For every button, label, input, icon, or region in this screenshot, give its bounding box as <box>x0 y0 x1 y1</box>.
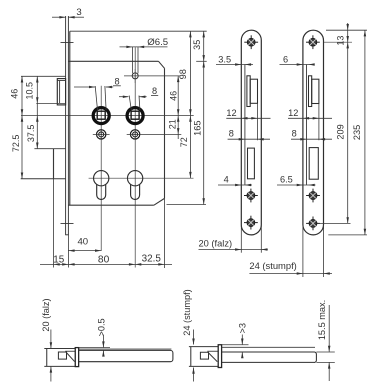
section stumpf case <box>189 347 218 367</box>
dim 8 plate1 <box>228 129 270 141</box>
dim 21 right <box>167 116 179 135</box>
faceplate screw mark bottom <box>61 223 74 225</box>
dim 6 <box>280 55 315 66</box>
plate1 latch cutout <box>250 79 257 103</box>
svg-text:46: 46 <box>168 91 178 101</box>
plate1 screw bottom <box>244 216 258 230</box>
svg-text:3.5: 3.5 <box>218 55 231 65</box>
svg-text:13: 13 <box>336 36 346 46</box>
plate2 screw top <box>306 35 320 49</box>
strike plate 2 outline <box>303 30 324 235</box>
text 15 <box>53 254 64 265</box>
svg-text:235: 235 <box>352 125 362 140</box>
plate1 screw top <box>244 35 258 49</box>
svg-text:8: 8 <box>292 129 297 139</box>
plate2 screw bottom <box>306 217 320 231</box>
dim 209 <box>336 42 349 223</box>
plates bottom witness <box>328 234 367 236</box>
dim 6.5 <box>277 175 316 187</box>
plate2 cutout witness <box>318 104 320 141</box>
deadbolt front witness <box>53 179 55 268</box>
dim 72 right <box>179 116 192 179</box>
text 32.5 <box>142 254 162 265</box>
plate2 screw mid <box>306 189 320 203</box>
latch bolt <box>57 79 65 105</box>
svg-text:6: 6 <box>283 55 288 65</box>
section falz latch bevel <box>65 351 75 361</box>
dim 40 <box>68 237 101 252</box>
follower 1 <box>93 130 110 139</box>
dim 13 <box>336 23 349 223</box>
text 80 <box>98 255 110 266</box>
cylinder hole 2 <box>127 171 142 200</box>
svg-text:Ø6.5: Ø6.5 <box>147 37 168 48</box>
plate2 latch lip <box>309 76 312 107</box>
faceplate back witness <box>67 235 69 268</box>
plates top witness <box>326 29 367 31</box>
spindle hub 2 <box>127 108 143 124</box>
plate2 screw3 centerline ext <box>320 222 351 224</box>
hub column centerline 2 <box>134 47 136 267</box>
dim 235 <box>352 30 366 235</box>
dim 98 right <box>178 31 192 178</box>
dim 24 stumpf <box>249 226 332 278</box>
svg-text:24 (stumpf): 24 (stumpf) <box>182 289 192 335</box>
plate1 bend line <box>244 65 246 185</box>
svg-text:165: 165 <box>193 121 203 136</box>
dim 8 plate2 <box>291 129 332 141</box>
svg-text:72: 72 <box>179 137 189 147</box>
svg-text:37.5: 37.5 <box>26 125 36 143</box>
section stumpf door bar <box>222 347 317 362</box>
section falz case <box>44 349 75 367</box>
dim 3 (faceplate thickness) <box>52 7 84 19</box>
deadbolt <box>21 149 66 179</box>
section falz latch <box>58 352 66 359</box>
svg-text:20 (falz): 20 (falz) <box>199 239 233 249</box>
dim >3 <box>222 323 249 358</box>
dim 15.5 max <box>316 300 334 381</box>
plate1 cutout witness <box>257 103 259 140</box>
section falz faceplate <box>75 348 78 367</box>
svg-text:32.5: 32.5 <box>142 254 162 265</box>
svg-text:>3: >3 <box>238 323 248 333</box>
svg-text:3: 3 <box>76 7 81 18</box>
dim >0.5 <box>79 318 110 356</box>
dim 12 plate1 <box>226 108 270 120</box>
spindle hub 1 <box>93 108 109 124</box>
plate2 latch cutout <box>312 79 319 103</box>
cylinder centerline <box>89 177 194 179</box>
svg-text:21: 21 <box>167 119 177 129</box>
plate2 deadbolt cutout <box>309 148 318 180</box>
dim 24 stumpf section <box>182 289 195 381</box>
svg-text:72.5: 72.5 <box>11 135 21 153</box>
plate2 screw1 centerline ext <box>324 41 352 43</box>
dim 8 hub1 <box>74 76 121 110</box>
dim 46 left <box>10 76 24 178</box>
case bottom extension segment <box>167 204 207 206</box>
section stumpf latch bevel <box>207 351 218 361</box>
hub centerline <box>21 115 194 117</box>
dim 3.5 <box>216 55 253 66</box>
svg-text:>0.5: >0.5 <box>97 318 107 336</box>
svg-text:35: 35 <box>192 40 202 50</box>
plate1 deadbolt cutout <box>248 148 255 179</box>
dim 20 falz <box>199 226 268 253</box>
dim 4 plate1 <box>218 175 252 187</box>
strike plate 1 outline <box>241 30 261 235</box>
svg-text:12: 12 <box>226 108 236 118</box>
svg-text:80: 80 <box>98 255 110 266</box>
svg-text:8: 8 <box>152 86 157 96</box>
dim 12 plate2 <box>288 108 332 120</box>
dim 20 falz section <box>41 298 52 381</box>
plate1 screw mid <box>244 189 258 203</box>
dim 8 hub2 <box>119 86 158 110</box>
svg-text:8: 8 <box>229 129 234 139</box>
svg-text:24 (stumpf): 24 (stumpf) <box>249 260 296 271</box>
cylinder hole 1 <box>94 171 109 200</box>
case top extension segment <box>196 60 207 62</box>
case right witness <box>164 198 166 268</box>
svg-text:46: 46 <box>10 89 20 99</box>
svg-text:4: 4 <box>224 175 229 185</box>
svg-text:15: 15 <box>53 254 64 265</box>
svg-text:20 (falz): 20 (falz) <box>41 298 51 331</box>
dim 37.5 left <box>26 116 38 149</box>
svg-text:40: 40 <box>77 237 88 248</box>
follower 2 <box>127 130 182 139</box>
lock case outline <box>68 31 206 205</box>
svg-text:12: 12 <box>288 108 298 118</box>
plate1 latch lip <box>247 76 250 107</box>
dim 72.5 left <box>11 116 23 179</box>
hub column centerline 1 <box>100 86 102 251</box>
section stumpf latch <box>200 352 208 359</box>
svg-text:209: 209 <box>336 124 346 139</box>
faceplate (Stulp) <box>65 16 69 235</box>
dim D6.5 <box>120 37 169 73</box>
svg-text:10.5: 10.5 <box>25 82 35 100</box>
dim 46 right <box>168 76 179 139</box>
hole D6.5 <box>124 69 181 83</box>
dim 165 right <box>193 61 205 204</box>
section stumpf faceplate <box>218 345 221 368</box>
svg-text:8: 8 <box>114 76 119 86</box>
latch top witness <box>21 75 66 77</box>
faceplate screw mark top <box>61 42 74 44</box>
section falz door bar <box>79 349 173 362</box>
svg-text:6.5: 6.5 <box>280 175 293 185</box>
dim 10.5 left <box>25 76 39 148</box>
bottom dim line 15/80/32.5 <box>40 263 172 266</box>
svg-text:98: 98 <box>178 69 188 79</box>
latch bottom witness <box>36 102 65 104</box>
plate2 bend line <box>306 65 308 185</box>
svg-text:15.5 max.: 15.5 max. <box>317 300 327 340</box>
dim 35 right <box>192 31 205 204</box>
